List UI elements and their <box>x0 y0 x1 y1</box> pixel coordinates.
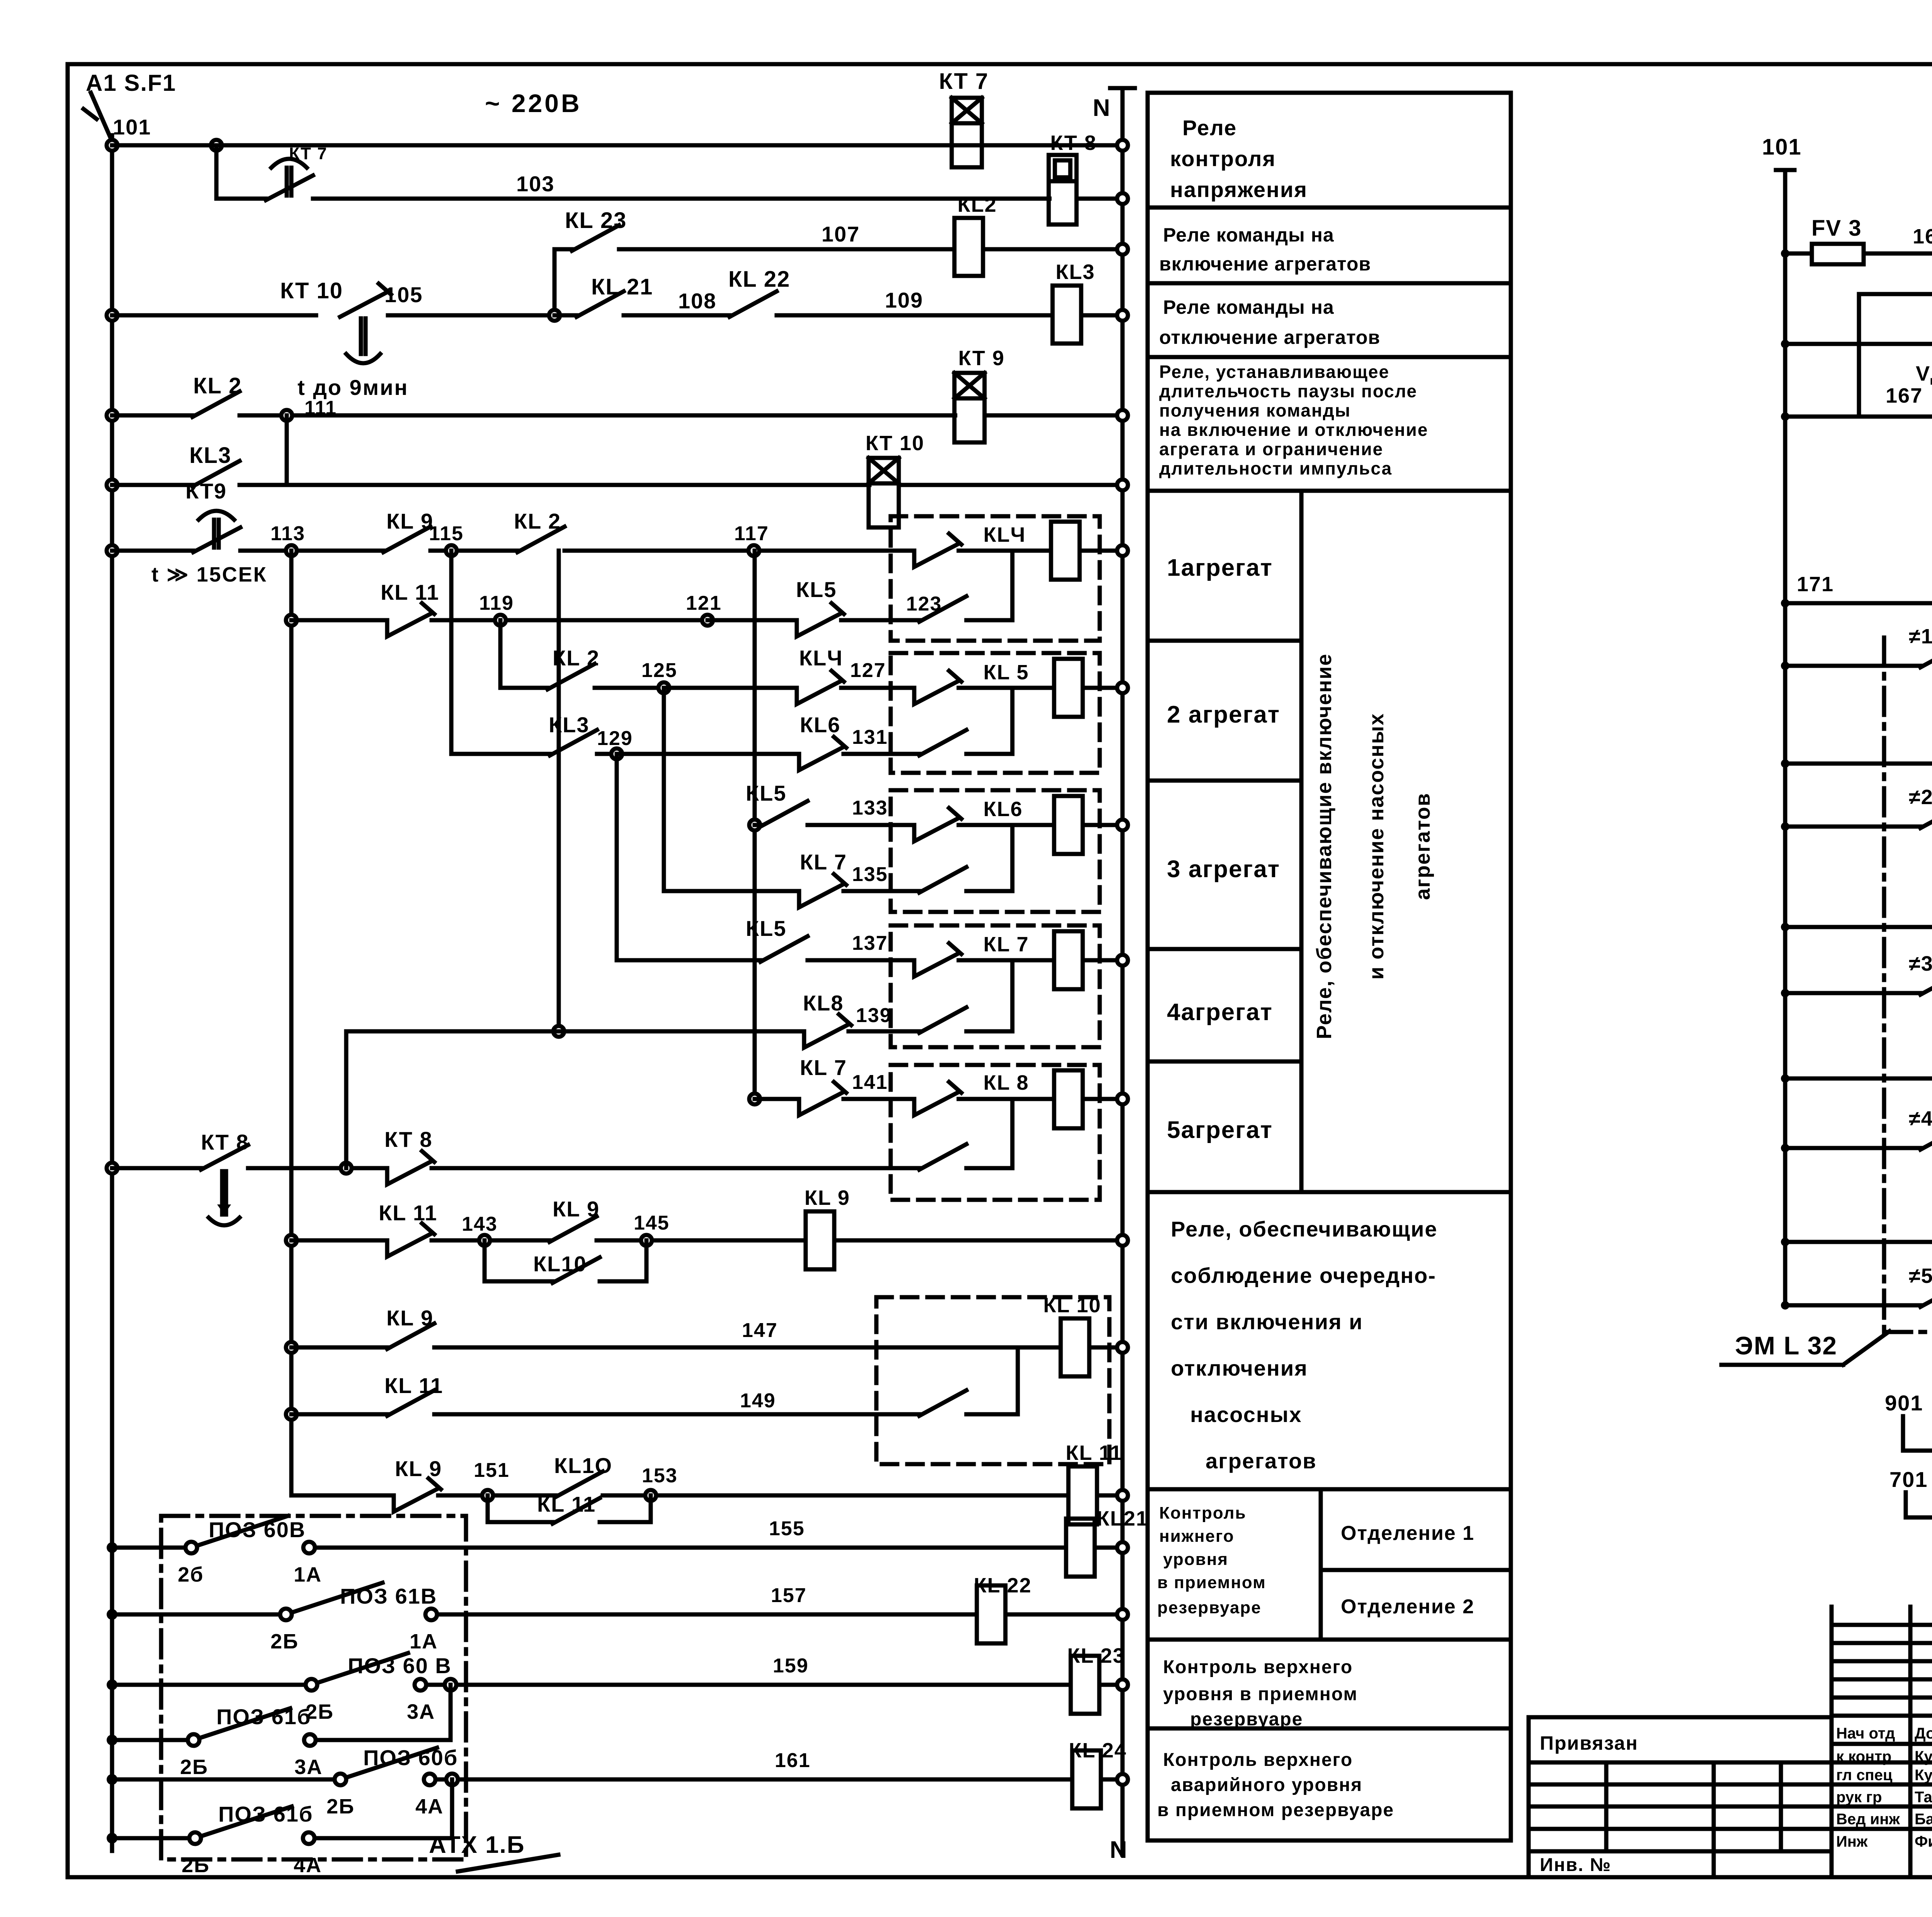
svg-text:4А: 4А <box>294 1854 322 1877</box>
svg-text:КL5: КL5 <box>746 916 787 941</box>
contact KL3 <box>192 461 240 486</box>
contact KL10 b <box>556 1471 603 1497</box>
contact unit4 no <box>919 1007 966 1033</box>
contact KL22 <box>730 291 777 317</box>
contact KL3 b <box>550 730 597 755</box>
wire rung 139 a <box>346 1029 804 1034</box>
svg-text:КТ 9: КТ 9 <box>958 347 1005 370</box>
wire vertical 129 down <box>615 754 619 960</box>
relay coil KL11 <box>1068 1466 1097 1524</box>
node 133 start <box>749 820 760 830</box>
wire rung 121 <box>707 618 797 623</box>
node N 137 <box>1117 955 1128 966</box>
svg-text:Вед инж: Вед инж <box>1836 1811 1900 1828</box>
wire rung 157 a <box>112 1613 280 1617</box>
svg-text:КL5: КL5 <box>796 577 837 602</box>
wire rung 135 c <box>966 889 1012 893</box>
power rail 101 tick <box>1776 168 1794 172</box>
contact 3-KL4 <box>1920 969 1932 995</box>
sig row empty 0 <box>1832 1623 1932 1627</box>
wire КL21 to N <box>1095 1546 1122 1550</box>
wire branch 111 down <box>285 415 289 485</box>
node top feed rail <box>1781 340 1789 348</box>
wire branch KL23 up <box>553 249 557 315</box>
svg-text:КL 7: КL 7 <box>800 850 847 874</box>
wire vertical 115 down <box>449 551 454 754</box>
node 113 feeder <box>286 615 297 626</box>
svg-text:ПОЗ 61б: ПОЗ 61б <box>216 1704 311 1729</box>
wire rung KT8 b <box>248 1166 387 1170</box>
agregat row divider 1 <box>1148 639 1301 643</box>
wire rung 165 a <box>1785 252 1812 256</box>
annotation row divider 1 <box>1148 206 1511 210</box>
wire rung 159 a <box>112 1683 306 1687</box>
node N 155 <box>1117 1542 1128 1553</box>
svg-text:701: 701 <box>1889 1467 1928 1492</box>
wire rung 107 left <box>554 247 572 252</box>
svg-text:резервуаре: резервуаре <box>1157 1598 1262 1617</box>
node 139 cross <box>553 1026 564 1037</box>
wire rung 139 c <box>966 1029 1012 1034</box>
wire rung 107 right <box>619 247 954 252</box>
svg-text:Отделение 2: Отделение 2 <box>1341 1596 1475 1618</box>
svg-text:157: 157 <box>771 1584 807 1607</box>
svg-text:КL 23: КL 23 <box>1067 1644 1125 1667</box>
wire rung 127 b <box>959 686 1054 690</box>
annotation row divider 2 <box>1148 281 1511 286</box>
svg-text:Барбашинов: Барбашинов <box>1915 1811 1932 1828</box>
wire rung 137 c <box>959 958 1054 963</box>
annotation table frame <box>1148 93 1511 1840</box>
node rail feed 2 <box>1781 822 1789 831</box>
node rail 105 <box>107 310 117 321</box>
wire feeder 1 a <box>1785 664 1920 668</box>
leader EM L32 <box>1843 1331 1889 1365</box>
wire KL8 to N <box>1083 1097 1122 1101</box>
node rail PT2 <box>1781 759 1789 768</box>
annotation row divider 3 <box>1148 355 1511 359</box>
wire rung 117 <box>565 549 914 553</box>
node N 117 <box>1117 545 1128 556</box>
relay coil KL3 <box>1053 286 1081 344</box>
svg-text:в приемном резервуаре: в приемном резервуаре <box>1157 1800 1394 1820</box>
breaker SF1 <box>91 93 110 136</box>
wire rung 111 b <box>240 413 955 418</box>
wire KT8 to N <box>1077 197 1122 201</box>
wire rung 155 a <box>112 1546 185 1550</box>
node N 145 <box>1117 1235 1128 1246</box>
wire rung 149 c <box>966 1412 1018 1417</box>
wire rung 125 c <box>664 686 797 690</box>
node N 157 <box>1117 1609 1128 1620</box>
junction unit5 <box>1010 1099 1015 1168</box>
svg-text:145: 145 <box>634 1212 670 1234</box>
node 149 start <box>286 1409 297 1420</box>
contact POZ ПОЗ 60б 161 <box>335 1774 346 1785</box>
node rail 157 <box>107 1609 117 1620</box>
svg-text:КТ9: КТ9 <box>185 479 227 503</box>
contact POZ ПОЗ 61б 159b <box>188 1734 199 1746</box>
otdelenie divider <box>1321 1568 1511 1572</box>
node 129 <box>611 748 622 759</box>
wire vertical 125 down <box>662 688 666 891</box>
wire rung KL3 a <box>112 483 192 487</box>
wire rung 159 b <box>426 1683 1071 1687</box>
svg-text:Кудряшов: Кудряшов <box>1915 1767 1932 1784</box>
svg-text:КL 9: КL 9 <box>386 1306 434 1330</box>
svg-text:получения команды: получения команды <box>1159 400 1351 420</box>
node rail 161b <box>107 1833 117 1844</box>
right rail N top tick <box>1110 86 1135 90</box>
wire feeder 3 a <box>1785 991 1920 995</box>
contact KL2 c <box>548 664 595 689</box>
svg-text:VД1: VД1 <box>1916 362 1932 385</box>
wire secondary loop top left <box>1859 292 1932 296</box>
svg-text:КL 9: КL 9 <box>386 509 434 533</box>
dashed box unit 1 <box>891 516 1100 641</box>
wire bridge top feed <box>1785 342 1932 346</box>
svg-text:Реле команды на: Реле команды на <box>1163 224 1334 246</box>
wire rung KT8 c <box>432 1166 919 1170</box>
node rail 159 <box>107 1679 117 1690</box>
contact unit5 nc <box>914 1092 959 1115</box>
svg-text:насосных: насосных <box>1190 1402 1302 1427</box>
svg-text:137: 137 <box>852 932 888 954</box>
svg-text:к контр: к контр <box>1836 1748 1891 1765</box>
svg-text:уровня: уровня <box>1163 1550 1228 1569</box>
dashed box unit 3 <box>891 790 1100 912</box>
svg-text:147: 147 <box>742 1319 778 1342</box>
svg-text:Нач отд: Нач отд <box>1836 1725 1895 1742</box>
svg-text:агрегата и ограничение: агрегата и ограничение <box>1159 439 1383 459</box>
node pair 161 <box>446 1774 458 1785</box>
svg-text:Привязан: Привязан <box>1540 1732 1638 1754</box>
svg-text:КL8: КL8 <box>803 991 844 1015</box>
privyazan box <box>1529 1717 1832 1762</box>
wire rung 129 b <box>597 752 617 756</box>
svg-text:КL 11: КL 11 <box>381 580 439 604</box>
wire rung 135 a <box>664 889 799 893</box>
contact 2-KL4 <box>1920 803 1932 828</box>
relay coil KL9 <box>806 1211 834 1269</box>
svg-text:≠2- КLЧ: ≠2- КLЧ <box>1909 786 1932 809</box>
node N 159 <box>1117 1679 1128 1690</box>
svg-text:КL 9: КL 9 <box>804 1186 850 1209</box>
llt row 0 <box>1529 1783 1832 1787</box>
svg-text:t до 9мин: t до 9мин <box>298 375 408 400</box>
wire rung 105 a <box>112 313 316 318</box>
node 111 <box>281 410 292 421</box>
svg-text:161: 161 <box>775 1749 811 1772</box>
wire rung PT1 <box>1785 601 1932 606</box>
agregat row divider 4 <box>1148 1060 1301 1064</box>
contact POZ ПОЗ 60В 155 <box>185 1542 197 1553</box>
svg-text:КLЧ: КLЧ <box>983 523 1026 546</box>
wire 101 to N <box>145 143 982 148</box>
node rail 159b <box>107 1735 117 1745</box>
node rail PT5 <box>1781 1238 1789 1246</box>
svg-text:109: 109 <box>885 288 923 312</box>
svg-text:3А: 3А <box>407 1700 435 1723</box>
node 115 <box>446 545 457 556</box>
sig table left <box>1830 1607 1834 1877</box>
svg-text:Инж: Инж <box>1836 1833 1868 1850</box>
contact KL5 c <box>760 936 808 962</box>
bypass KL10 wire <box>483 1240 487 1281</box>
relay coil KL6 <box>1054 796 1083 854</box>
wire rung 741 a <box>1906 1516 1932 1520</box>
wire rung 153 <box>603 1493 1068 1498</box>
svg-text:N: N <box>1093 95 1110 121</box>
svg-text:КL 2: КL 2 <box>514 509 561 533</box>
relay coil KT10 <box>869 458 899 527</box>
wire rung 119 b <box>432 618 707 623</box>
svg-text:121: 121 <box>686 592 722 614</box>
wire rung 117 b <box>959 549 1051 553</box>
node N KT10 <box>1117 480 1128 490</box>
svg-text:КL10: КL10 <box>533 1252 587 1276</box>
relay coil KL7 <box>1054 931 1083 989</box>
contact KL21 <box>577 291 624 317</box>
contact POZ ПОЗ 61В 157 <box>280 1609 292 1620</box>
contact KL9 nc <box>394 1488 438 1512</box>
node fv3 rail <box>1781 249 1789 258</box>
contact KL11 bypass <box>553 1498 600 1524</box>
svg-text:151: 151 <box>474 1459 510 1482</box>
svg-text:125: 125 <box>641 659 677 682</box>
wire rung 127 <box>841 686 914 690</box>
svg-text:2Б: 2Б <box>180 1755 208 1779</box>
svg-text:143: 143 <box>462 1213 498 1235</box>
wire rung 123 b <box>966 618 1012 623</box>
contact KL9 b <box>549 1216 597 1242</box>
wire КL 22 to N <box>1005 1613 1122 1617</box>
node rail KL3 rung <box>107 480 117 490</box>
svg-text:Кудряшов: Кудряшов <box>1915 1748 1932 1765</box>
relay coil KL8 <box>1054 1070 1083 1128</box>
node 119 <box>495 615 506 626</box>
contact KL5 nc <box>797 613 841 636</box>
dashed box unit 2 <box>891 653 1100 773</box>
svg-text:КL2: КL2 <box>957 193 997 216</box>
contact 4-KL4 <box>1920 1124 1932 1150</box>
svg-text:КL 11: КL 11 <box>1066 1441 1122 1465</box>
wire rung 125 b <box>595 686 664 690</box>
svg-text:127: 127 <box>850 659 886 682</box>
wire vertical 896 <box>344 1031 349 1168</box>
right rail N <box>1121 88 1125 1855</box>
node N 133 <box>1117 820 1128 830</box>
contact KL10 bypass <box>553 1257 600 1283</box>
sig row line 4675 <box>1832 1805 1932 1809</box>
svg-text:агрегатов: агрегатов <box>1411 793 1434 900</box>
svg-text:Инв. №: Инв. № <box>1540 1855 1611 1875</box>
svg-text:КL 22: КL 22 <box>728 267 790 292</box>
wire vertical 121-139 <box>557 551 561 1031</box>
svg-text:167: 167 <box>1886 384 1923 407</box>
sig row line 4561 <box>1832 1761 1932 1765</box>
svg-text:КL 11: КL 11 <box>379 1201 437 1225</box>
node N 107 <box>1117 244 1128 255</box>
svg-text:ПОЗ 60В: ПОЗ 60В <box>209 1517 306 1542</box>
svg-text:КТ 8: КТ 8 <box>384 1127 432 1152</box>
dashdot box ATX <box>161 1516 466 1859</box>
node 113 <box>286 545 297 556</box>
dashed box unit 5 <box>891 1065 1100 1200</box>
dashdot line counters bottom <box>1884 1330 1932 1334</box>
wire vertical 117 down <box>753 551 757 1099</box>
relay coil КL21 <box>1066 1519 1095 1577</box>
svg-text:КLЧ: КLЧ <box>799 646 843 670</box>
svg-text:контроля: контроля <box>1170 146 1276 171</box>
node 105/107 <box>549 310 560 321</box>
svg-text:КТ 8: КТ 8 <box>201 1130 249 1154</box>
node N 127 <box>1117 682 1128 693</box>
wire rung PT2 <box>1785 762 1932 766</box>
svg-text:КL5: КL5 <box>746 781 787 805</box>
wire rung 105 e <box>777 313 1053 318</box>
kontrol column divider <box>1319 1489 1323 1640</box>
wire rung PT3 <box>1785 925 1932 929</box>
wire rung 151 a <box>291 1493 394 1498</box>
svg-text:≠3- КLЧ: ≠3- КLЧ <box>1909 952 1932 975</box>
fuse FV3 <box>1812 244 1864 264</box>
svg-text:КL3: КL3 <box>1056 260 1095 284</box>
wire KT10 to N <box>899 483 1122 487</box>
contact KL5 b <box>760 801 808 827</box>
svg-text:КL 24: КL 24 <box>1069 1739 1127 1762</box>
svg-text:113: 113 <box>270 522 305 545</box>
contact KL4 nc b <box>797 681 841 704</box>
node N 109 <box>1117 310 1128 321</box>
svg-text:153: 153 <box>642 1465 678 1487</box>
node 143 start <box>286 1235 297 1246</box>
svg-text:901: 901 <box>1885 1391 1923 1415</box>
wire rung 111 a <box>112 413 192 418</box>
left rail L bold lower part <box>110 1536 114 1851</box>
sig row line 4733 <box>1832 1827 1932 1831</box>
contact KL23 <box>572 225 619 251</box>
sig row line 4513 <box>1832 1742 1932 1746</box>
svg-text:107: 107 <box>821 222 860 246</box>
svg-text:Реле команды на: Реле команды на <box>1163 296 1334 318</box>
svg-text:КL 9: КL 9 <box>395 1456 442 1481</box>
svg-text:139: 139 <box>856 1004 892 1027</box>
svg-text:КТ 10: КТ 10 <box>280 278 343 303</box>
power rail 101 <box>1783 170 1787 1305</box>
svg-text:КL 2: КL 2 <box>193 373 242 398</box>
wire rung 145 <box>597 1238 806 1243</box>
node N 101 <box>1117 140 1128 151</box>
wire KL5 to N <box>1083 686 1122 690</box>
llt row 3 <box>1529 1849 1832 1854</box>
node rail feed 5 <box>1781 1301 1789 1310</box>
contact KL2 <box>192 391 240 417</box>
svg-text:ПОЗ 60б: ПОЗ 60б <box>363 1745 458 1770</box>
border frame top <box>68 62 1932 66</box>
svg-text:Тарасова: Тарасова <box>1915 1789 1932 1806</box>
wire rung 113 b <box>240 549 383 553</box>
wire vertical 159 link <box>449 1685 453 1740</box>
wire rung 125 a <box>500 686 548 690</box>
svg-text:ПОЗ 61В: ПОЗ 61В <box>340 1584 437 1608</box>
svg-text:КL 9: КL 9 <box>553 1197 600 1221</box>
svg-text:Реле: Реле <box>1182 116 1237 140</box>
wire rung 113 c <box>430 549 517 553</box>
node N 103 <box>1117 193 1128 204</box>
svg-text:N: N <box>1110 1837 1128 1863</box>
svg-text:КL1О: КL1О <box>554 1453 612 1478</box>
wire rung 133 c <box>959 823 1054 827</box>
wire rung 131 b <box>844 752 919 756</box>
wire rung 161b link <box>315 1836 452 1840</box>
wire feeder 4 a <box>1785 1146 1920 1150</box>
junction unit2 <box>1010 688 1015 754</box>
svg-text:155: 155 <box>769 1517 805 1540</box>
svg-text:2Б: 2Б <box>182 1854 210 1877</box>
svg-text:КL6: КL6 <box>983 798 1023 821</box>
wire rung 105 c <box>554 313 577 318</box>
svg-text:ПОЗ 61б: ПОЗ 61б <box>218 1802 313 1826</box>
svg-text:КL 8: КL 8 <box>983 1071 1029 1094</box>
sig row empty 1 <box>1832 1641 1932 1645</box>
svg-text:FV 3: FV 3 <box>1811 216 1862 241</box>
wire KL9 to N <box>834 1238 1122 1243</box>
svg-text:4А: 4А <box>415 1795 444 1818</box>
junction unit3 <box>1010 825 1015 891</box>
node rail 111 <box>107 410 117 421</box>
llt col 3 <box>1779 1762 1783 1851</box>
contact KL11 nc b <box>387 1233 432 1257</box>
svg-text:КТ 7: КТ 7 <box>939 69 989 94</box>
svg-text:рук гр: рук гр <box>1836 1789 1882 1806</box>
relay coil КL 23 <box>1071 1656 1099 1714</box>
contact KL11 b <box>387 1390 434 1416</box>
node rail 155 <box>107 1542 117 1553</box>
svg-text:КL 5: КL 5 <box>983 661 1029 684</box>
contact KL7 b <box>799 1092 844 1115</box>
node 143 <box>479 1235 490 1246</box>
wire 701 down <box>1904 1492 1908 1517</box>
svg-text:КL 7: КL 7 <box>983 933 1029 956</box>
svg-text:КL3: КL3 <box>549 713 590 737</box>
dashdot line counters left <box>1882 638 1886 1332</box>
svg-text:нижнего: нижнего <box>1159 1527 1235 1546</box>
border frame bottom <box>68 1875 1932 1880</box>
svg-text:гл спец: гл спец <box>1836 1767 1893 1784</box>
svg-text:КL21: КL21 <box>1097 1507 1148 1530</box>
bypass KL11 wire <box>486 1495 490 1522</box>
svg-text:КL 22: КL 22 <box>974 1574 1032 1597</box>
svg-text:115: 115 <box>429 522 464 545</box>
node pair 159 <box>445 1679 456 1691</box>
contact 1-KL4 <box>1920 642 1932 667</box>
wire KT9 to N <box>985 413 1122 418</box>
svg-text:Филиппова: Филиппова <box>1915 1833 1932 1850</box>
svg-text:119: 119 <box>479 592 514 614</box>
wire vertical KL4 junction <box>1010 551 1015 620</box>
svg-text:2б: 2б <box>178 1563 204 1586</box>
svg-text:171: 171 <box>1797 573 1834 596</box>
node bridge rail <box>1781 412 1789 421</box>
node 121 <box>702 615 713 626</box>
wire rung 149 b <box>434 1412 919 1417</box>
llt col 1 <box>1604 1762 1609 1851</box>
wire rung PT5 <box>1785 1240 1932 1244</box>
svg-text:3А: 3А <box>294 1755 323 1779</box>
svg-text:отключения: отключения <box>1171 1356 1308 1380</box>
wire КL 23 to N <box>1099 1683 1122 1687</box>
